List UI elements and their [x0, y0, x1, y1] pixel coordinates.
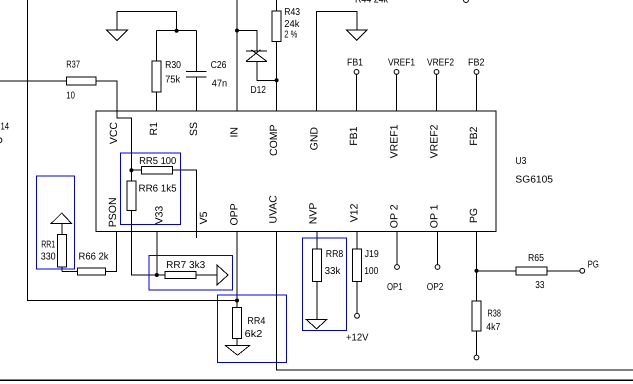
- svg-text:OP 1: OP 1: [429, 204, 441, 228]
- blue box RR8: [303, 238, 347, 331]
- blue box RR7: [149, 256, 233, 290]
- svg-text:IN: IN: [229, 127, 241, 138]
- svg-text:4k7: 4k7: [486, 322, 500, 333]
- wire IN pin vertical from top edge: [236, 0, 238, 111]
- svg-text:R1: R1: [148, 122, 160, 136]
- svg-text:R37: R37: [66, 60, 80, 71]
- ground GND2: [346, 30, 367, 41]
- svg-text:14: 14: [1, 121, 10, 132]
- svg-text:FB2: FB2: [468, 126, 480, 145]
- blue box RR1: [37, 176, 75, 269]
- wire ground1 to R30/C26 top: [117, 12, 177, 31]
- svg-text:GND: GND: [309, 127, 321, 151]
- svg-text:NVP: NVP: [308, 203, 320, 225]
- arrow above RR1: [51, 213, 72, 234]
- svg-text:COMP: COMP: [268, 125, 280, 157]
- svg-text:SS: SS: [188, 122, 200, 136]
- diode D12: [246, 50, 267, 96]
- resistor R43: [272, 0, 300, 42]
- terminal VREF1: [388, 58, 415, 112]
- terminal VREF2: [427, 58, 454, 112]
- blue box RR4: [218, 295, 287, 363]
- resistor R38: [472, 301, 501, 333]
- wire UVAC pin down and right: [277, 232, 633, 371]
- svg-text:330: 330: [41, 252, 56, 263]
- svg-text:RR8: RR8: [326, 249, 344, 260]
- svg-text:2 %: 2 %: [284, 29, 297, 40]
- wire PSON pin to R66: [106, 232, 117, 272]
- svg-text:VCC: VCC: [108, 122, 120, 145]
- terminal OP1 (on pin OP2): [387, 232, 403, 294]
- wire OPP pin down: [236, 232, 238, 301]
- terminal FB1: [347, 58, 363, 112]
- svg-text:R38: R38: [488, 309, 502, 320]
- svg-text:RR1: RR1: [41, 239, 55, 250]
- svg-text:VREF1: VREF1: [388, 58, 415, 69]
- svg-text:VREF1: VREF1: [389, 124, 401, 158]
- svg-text:FB1: FB1: [347, 58, 363, 69]
- wire long left vertical/horizontal net to OPP: [28, 0, 238, 301]
- svg-text:10: 10: [66, 91, 75, 102]
- svg-text:VREF2: VREF2: [429, 124, 441, 158]
- wire D12 branch top: [237, 31, 257, 52]
- svg-text:33k: 33k: [325, 266, 342, 277]
- terminal circle cut at top: [464, 0, 469, 3]
- wire PG pin down: [476, 232, 478, 302]
- svg-text:VREF2: VREF2: [427, 58, 454, 69]
- terminal PG: [580, 260, 599, 274]
- svg-text:47n: 47n: [212, 79, 227, 90]
- resistor RR4: [233, 301, 266, 340]
- svg-text:RR5 100: RR5 100: [139, 156, 177, 167]
- svg-text:PG: PG: [588, 260, 599, 271]
- svg-text:U3: U3: [515, 156, 526, 167]
- svg-text:V5: V5: [198, 211, 210, 224]
- svg-text:75k: 75k: [165, 74, 181, 85]
- terminal circle cut at left: [0, 138, 2, 143]
- svg-text:100: 100: [364, 266, 378, 277]
- svg-text:FB2: FB2: [468, 58, 485, 69]
- svg-text:V12: V12: [349, 203, 361, 222]
- ground below RR8: [306, 282, 327, 329]
- ground GND1 top-left: [107, 12, 128, 41]
- resistor RR5: [131, 156, 176, 174]
- svg-text:R44 24k: R44 24k: [355, 0, 389, 5]
- svg-text:OP 2: OP 2: [389, 204, 401, 228]
- svg-text:FB1: FB1: [348, 126, 360, 145]
- resistor R65: [477, 253, 580, 291]
- resistor RR8: [312, 232, 343, 282]
- wire D12 bottom to COMP line: [257, 61, 277, 80]
- wire R43 bottom to COMP pin: [276, 42, 278, 112]
- IC body U3 SG6105: [96, 111, 553, 231]
- terminal +12V: [346, 282, 369, 344]
- resistor R37: [66, 77, 96, 85]
- capacitor C26: [186, 31, 227, 112]
- blue box RR5/RR6: [120, 153, 180, 225]
- wire GND pin up and over: [317, 12, 357, 112]
- terminal below R38: [474, 331, 479, 360]
- wire V33 pin down: [156, 232, 158, 276]
- svg-text:D12: D12: [251, 85, 267, 96]
- node junction R30/C26/ground: [175, 29, 179, 33]
- svg-text:OP2: OP2: [427, 282, 444, 293]
- node junction V33/RR6/RR7: [155, 273, 159, 277]
- resistor RR1: [41, 234, 67, 271]
- svg-text:OPP: OPP: [228, 203, 240, 225]
- resistor R30: [152, 31, 181, 112]
- svg-text:RR7 3k3: RR7 3k3: [166, 260, 205, 271]
- svg-text:J19: J19: [365, 249, 380, 260]
- svg-text:33: 33: [535, 280, 545, 291]
- svg-text:OP1: OP1: [387, 282, 403, 293]
- node junction VCC/RR5/RR6: [129, 168, 133, 172]
- wire R37 to VCC pin and inside jog to RR5/RR6: [96, 81, 131, 170]
- svg-text:SG6105: SG6105: [515, 175, 553, 186]
- node junction IN/D12: [235, 29, 239, 33]
- svg-text:UVAC: UVAC: [268, 195, 280, 224]
- terminal OP2 (on pin OP1): [427, 232, 444, 294]
- svg-text:R66 2k: R66 2k: [79, 252, 110, 263]
- node junction OPP/RR4/long wire: [235, 299, 239, 303]
- wire RR6 bottom to V33 net: [131, 210, 156, 275]
- svg-text:R43: R43: [284, 7, 300, 18]
- svg-text:V33: V33: [153, 206, 165, 225]
- svg-text:C26: C26: [211, 60, 227, 71]
- svg-text:RR4: RR4: [247, 316, 265, 327]
- svg-text:+12V: +12V: [346, 333, 369, 344]
- svg-text:6k2: 6k2: [245, 329, 263, 340]
- svg-text:RR6 1k5: RR6 1k5: [139, 184, 178, 195]
- ground below RR4: [226, 339, 250, 356]
- wire R30 top to C26 top: [157, 30, 197, 32]
- svg-text:24k: 24k: [284, 19, 300, 30]
- terminal FB2: [468, 58, 485, 112]
- resistor J19: [353, 232, 380, 282]
- node junction PG/R65/R38: [475, 269, 479, 273]
- svg-text:R30: R30: [165, 60, 181, 71]
- resistor R66: [62, 252, 110, 276]
- svg-text:R65: R65: [528, 253, 544, 264]
- wire RR5 right to V5 pin: [172, 170, 196, 238]
- border line bottom: [0, 380, 633, 382]
- svg-text:PSON: PSON: [107, 197, 119, 227]
- resistor RR6: [127, 170, 177, 210]
- svg-text:PG: PG: [468, 208, 480, 223]
- wire R37 left lead from edge: [0, 80, 66, 82]
- resistor RR7: [157, 260, 228, 285]
- node junction R43/D12: [275, 78, 279, 82]
